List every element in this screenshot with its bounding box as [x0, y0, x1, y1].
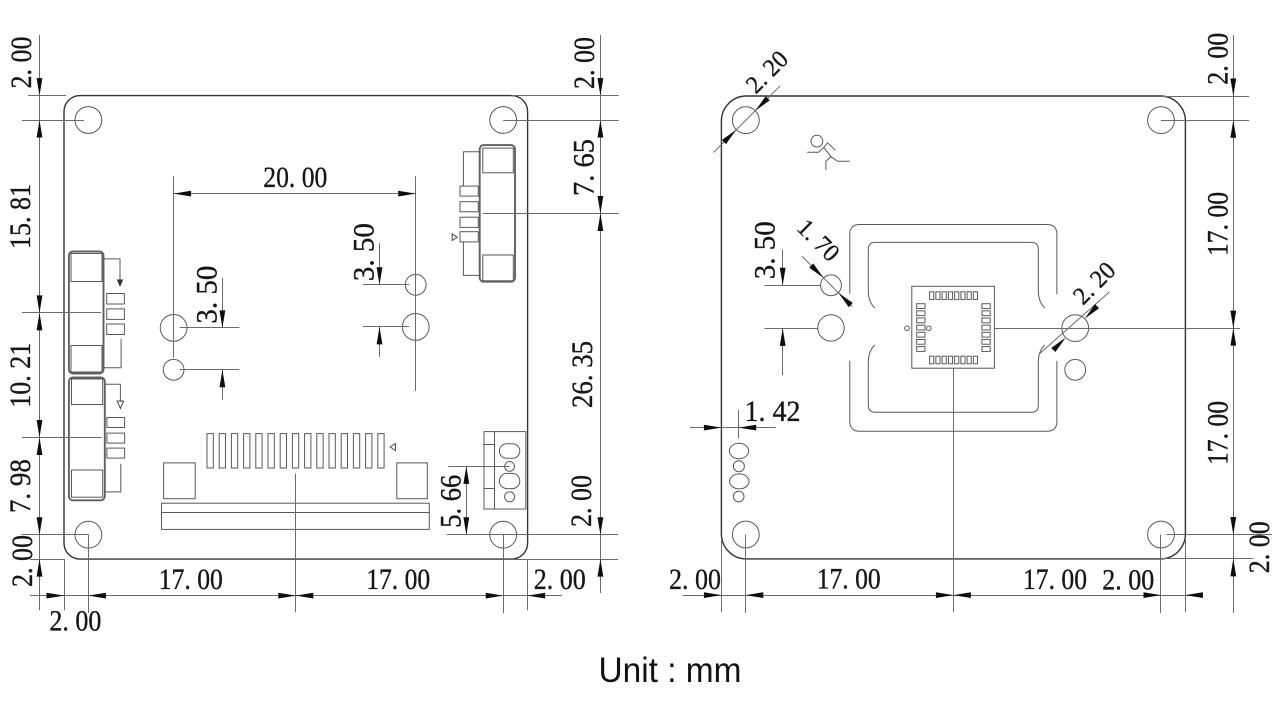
svg-text:2. 00: 2. 00	[565, 475, 598, 527]
pad column bottom-left (back view)	[729, 443, 748, 459]
connector J2 pad top	[72, 379, 103, 405]
board outline (back view)	[721, 96, 1185, 559]
FPC connector J4 pin row	[207, 434, 213, 468]
connector J5 outline (right edge)	[484, 432, 526, 509]
svg-text:17. 00: 17. 00	[159, 563, 223, 596]
mounting hole H3 (front bottom-left)	[75, 521, 102, 548]
right chain extension: top hole center	[503, 120, 619, 122]
chip U1 left pad column	[917, 304, 925, 309]
svg-text:5. 66: 5. 66	[434, 475, 467, 528]
back right chain extension: mid hole center line	[994, 328, 1240, 330]
connector J2 pad bottom	[72, 470, 103, 497]
board outline (front view)	[64, 96, 528, 559]
back right chain extension: board top edge	[1160, 96, 1249, 98]
via pair right-center: hole 1.70	[405, 274, 426, 295]
chip U1 bottom pad row	[930, 356, 934, 364]
svg-text:2. 00: 2. 00	[1202, 33, 1235, 85]
svg-text:2. 00: 2. 00	[5, 37, 38, 89]
via mid-left 2.20	[818, 315, 844, 341]
svg-text:2. 00: 2. 00	[534, 563, 586, 596]
connector J3 small pads	[460, 186, 478, 196]
connector J1 outline (upper-left)	[69, 252, 104, 374]
mounting hole H4 (front bottom-right)	[490, 521, 517, 548]
dimension 3.50 (right pair) extension lines	[363, 284, 409, 286]
mounting hole H8 (back bottom-right)	[1148, 521, 1175, 548]
dimension 1.42 line and arrows	[690, 427, 776, 429]
connector J5 oval pad 2	[499, 473, 519, 488]
bottom chain extensions (back view)	[721, 540, 723, 612]
mounting hole H7 (back bottom-left)	[732, 521, 759, 548]
bottom dimension chain (front view)	[30, 595, 562, 597]
left chain extension: connector J1 center	[22, 312, 101, 314]
svg-text:2. 00: 2. 00	[1243, 521, 1276, 573]
dimension 5.66 extension line	[448, 466, 509, 468]
mounting hole H1 (front top-left)	[75, 107, 102, 134]
dimension 2.20 leader (top-left hole)	[714, 86, 781, 153]
svg-text:20. 00: 20. 00	[263, 161, 327, 194]
shield fence inner outline (with side openings)	[868, 242, 1045, 308]
svg-text:17. 00: 17. 00	[817, 563, 881, 596]
svg-text:17. 00: 17. 00	[1202, 192, 1235, 256]
chip U1 pin-1 dot (outside)	[905, 326, 910, 331]
connector J3 pad top	[483, 148, 514, 173]
chip U1 top pad row	[930, 292, 934, 300]
svg-text:3. 50: 3. 50	[190, 266, 223, 324]
chip U1 pin-1 dot (inside)	[927, 326, 932, 331]
svg-text:1. 42: 1. 42	[745, 395, 801, 428]
svg-text:2. 00: 2. 00	[568, 37, 601, 89]
wire J3 shell top	[463, 152, 480, 186]
right chain extension: bottom hole center	[447, 534, 618, 536]
left chain extension: bottom hole center	[21, 534, 88, 536]
wire J1 top with arrow	[104, 259, 121, 281]
via pair left-center: hole 1.70	[163, 359, 184, 380]
bottom chain arrows (back view)	[704, 592, 722, 598]
pin-1 marker J3 (open triangle)	[452, 234, 457, 241]
wire J1 bottom	[104, 339, 122, 368]
dimension 2.20 leader (mid-right hole)	[1040, 292, 1110, 354]
bottom chain arrows (front view)	[47, 593, 65, 599]
mounting hole H2 (front top-right)	[490, 107, 517, 134]
svg-text:3. 50: 3. 50	[748, 221, 781, 279]
connector J5 round pad 1	[505, 462, 515, 472]
right chain arrows (front view)	[598, 78, 604, 96]
FPC connector J4 body bar	[162, 503, 430, 529]
left chain extension: connector J2 center	[22, 437, 102, 439]
chip U1 footprint outline	[912, 286, 995, 368]
svg-text:2. 00: 2. 00	[1102, 564, 1154, 597]
connector J1 pad bottom	[71, 346, 102, 373]
pin-1 marker J4 (open triangle)	[390, 443, 395, 450]
connector J1 pad top	[71, 254, 102, 282]
back right chain extension: board bottom edge	[1160, 558, 1253, 560]
left chain extension: board top edge	[28, 95, 66, 97]
left chain arrows	[37, 78, 43, 96]
via mid-left 1.70	[821, 275, 842, 296]
wire J2 bottom	[105, 464, 121, 492]
left chain extension: board bottom edge	[30, 559, 64, 561]
dimension 3.50 (left pair) line and arrows	[222, 278, 224, 328]
svg-text:15. 81: 15. 81	[4, 184, 37, 249]
svg-text:17. 00: 17. 00	[1023, 563, 1087, 596]
svg-text:3. 50: 3. 50	[348, 223, 381, 281]
shield fence outer outline (with side openings)	[850, 225, 1057, 295]
back right chain extension: top hole center	[1161, 120, 1249, 122]
mounting hole H6 (back top-right)	[1148, 107, 1175, 134]
dimension 20.00 line and arrows	[174, 193, 416, 195]
right chain extension: board bottom edge	[512, 559, 618, 561]
svg-text:17. 00: 17. 00	[1202, 401, 1235, 465]
right chain extension: board top edge	[512, 95, 619, 97]
right chain extension: connector J3 center	[483, 213, 619, 215]
bottom dimension chain (back view)	[683, 595, 1196, 597]
dimension 5.66 line and arrows	[466, 466, 468, 534]
connector J3 outline (top-right)	[480, 145, 515, 282]
connector J5 oval pad 1	[499, 444, 519, 459]
svg-text:7. 98: 7. 98	[4, 459, 37, 513]
mounting hole H5 (back top-left)	[732, 107, 759, 134]
dimension 3.50 (back view) line and arrows	[782, 250, 784, 285]
svg-text:2. 00: 2. 00	[49, 605, 101, 638]
dimension 3.50 (right pair) line and arrows	[379, 243, 381, 285]
FPC connector J4 right mount pad	[397, 463, 428, 499]
connector J3 pad bottom	[483, 255, 514, 281]
via mid-right 2.20	[1062, 315, 1089, 342]
dimension 3.50 (left pair) extension lines	[180, 327, 240, 329]
back right chain arrows	[1230, 79, 1236, 97]
svg-text:10. 21: 10. 21	[4, 343, 37, 408]
svg-text:17. 00: 17. 00	[366, 563, 430, 596]
connector J2 small pads	[107, 418, 125, 428]
via mid-right 1.70	[1065, 359, 1086, 380]
svg-text:26. 35: 26. 35	[566, 341, 599, 408]
via pair right-center: hole 2.20	[402, 314, 429, 341]
svg-text:2. 00: 2. 00	[6, 535, 39, 587]
bottom chain extensions (front view)	[64, 559, 66, 610]
FPC connector J4 left mount pad	[164, 463, 196, 499]
wire J2 top with open arrow	[105, 384, 121, 402]
dimension 1.70 leader (mid-left hole)	[802, 256, 852, 306]
wire J3 shell bottom	[463, 242, 480, 275]
connector J5 inner divider	[494, 432, 496, 509]
back right chain extension: bottom hole center	[1167, 534, 1272, 536]
left dimension chain line	[39, 35, 41, 610]
connector J5 round pad 2	[505, 492, 515, 502]
connector J2 outline (lower-left)	[69, 378, 105, 501]
svg-text:7. 65: 7. 65	[568, 139, 601, 196]
svg-text:Unit : mm: Unit : mm	[599, 651, 742, 690]
svg-text:2. 00: 2. 00	[669, 563, 721, 596]
dimension 20.00 extension lines	[173, 176, 175, 358]
connector J1 small pads	[107, 294, 125, 305]
via pair left-center: hole 2.20	[160, 315, 187, 342]
left chain extension: top hole center	[22, 120, 84, 122]
right dimension chain line (front view)	[600, 35, 602, 593]
logo mark (runner symbol)	[811, 135, 823, 147]
chip U1 right pad column	[982, 304, 990, 309]
dimension 3.50 (back view) extension lines	[764, 285, 820, 287]
right dimension chain line (back view)	[1233, 35, 1235, 613]
